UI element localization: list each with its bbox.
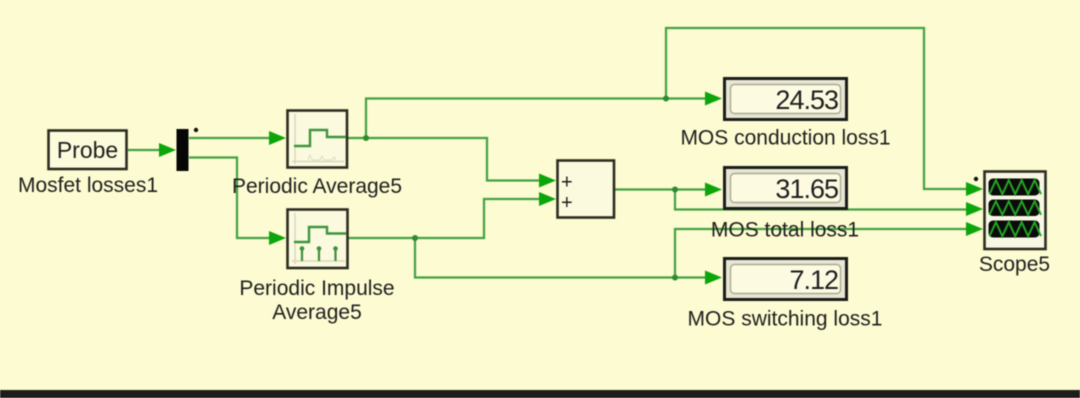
arrowhead into Mux	[159, 143, 176, 157]
wire Probe to Mux	[128, 149, 161, 151]
wire Sum output to Display2 (31.65)	[615, 188, 707, 190]
svg-text:Probe: Probe	[57, 137, 118, 163]
junction node on lower rail	[672, 275, 678, 281]
svg-text:31.65: 31.65	[775, 174, 838, 204]
svg-text:7.12: 7.12	[789, 265, 838, 295]
svg-text:Average5: Average5	[272, 301, 362, 324]
wire Mux out1 to Periodic Average5	[189, 137, 271, 139]
junction node on Sum output	[672, 187, 678, 193]
svg-text:Periodic Impulse: Periodic Impulse	[239, 277, 394, 300]
svg-text:+: +	[561, 172, 573, 194]
wire lower rail up to Scope input 3	[675, 229, 967, 278]
wire branch down to lower rail and Display3 (7.12)	[415, 238, 707, 278]
Sum block	[558, 161, 615, 218]
Periodic Impulse Average5 block	[288, 210, 348, 269]
junction node after Periodic Average5	[363, 135, 369, 141]
svg-text:Scope5: Scope5	[979, 253, 1050, 276]
svg-text:MOS switching loss1: MOS switching loss1	[688, 308, 883, 331]
junction node after Periodic Impulse Average5	[412, 235, 418, 241]
wire Sum branch to Scope input 2	[675, 190, 967, 210]
Probe block	[49, 131, 127, 170]
Periodic Average5 block	[288, 111, 348, 168]
junction node on Display1 wire	[663, 96, 669, 102]
svg-text:Mosfet losses1: Mosfet losses1	[18, 174, 158, 197]
probe dot marker	[194, 128, 198, 132]
Scope5 block	[985, 172, 1046, 250]
Display2 31.65	[725, 168, 847, 209]
svg-text:+: +	[561, 192, 573, 214]
wire Periodic Impulse Average5 output to sum input 2	[348, 199, 541, 238]
Display1 24.53	[725, 79, 847, 120]
wire Periodic Average5 output to sum input 1	[348, 138, 541, 181]
svg-text:MOS conduction loss1: MOS conduction loss1	[680, 127, 890, 150]
wire branch up to Display1 (24.53)	[366, 99, 707, 139]
mux bar (black)	[177, 129, 189, 171]
wire Mux out2 to Periodic Impulse Average5	[189, 158, 271, 239]
wire top rail to Scope input 1	[666, 28, 967, 189]
scope dot marker	[974, 177, 978, 181]
svg-text:Periodic Average5: Periodic Average5	[232, 175, 402, 198]
svg-text:MOS total loss1: MOS total loss1	[711, 219, 859, 242]
Display3 7.12	[725, 259, 847, 300]
svg-text:24.53: 24.53	[775, 85, 838, 115]
bottom dark bar	[0, 390, 1080, 398]
